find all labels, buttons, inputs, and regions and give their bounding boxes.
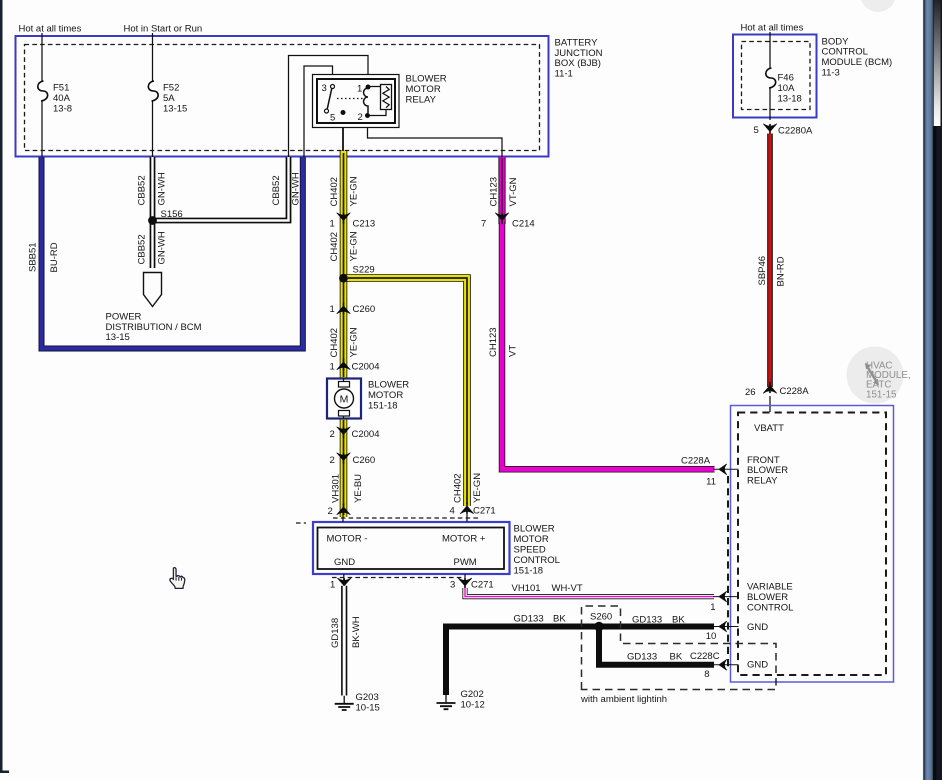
svg-text:11: 11 [706, 477, 716, 488]
svg-text:GD138: GD138 [330, 618, 341, 648]
svg-text:13-15: 13-15 [163, 104, 187, 115]
svg-text:VT: VT [508, 345, 519, 357]
svg-text:CH402: CH402 [453, 473, 464, 503]
svg-text:MOTOR +: MOTOR + [442, 534, 486, 545]
svg-text:JUNCTION: JUNCTION [555, 48, 603, 59]
svg-text:YE-GN: YE-GN [472, 473, 483, 503]
svg-text:1: 1 [330, 304, 335, 315]
svg-text:VBATT: VBATT [754, 423, 784, 434]
svg-text:F52: F52 [163, 83, 179, 94]
svg-text:1: 1 [710, 602, 715, 613]
svg-text:BK: BK [670, 651, 683, 662]
svg-text:Hot at all times: Hot at all times [741, 23, 804, 34]
svg-text:CH123: CH123 [488, 327, 499, 357]
svg-text:BLOWER: BLOWER [368, 380, 409, 391]
svg-text:1: 1 [330, 579, 335, 590]
svg-text:BK: BK [553, 614, 566, 625]
svg-text:S260: S260 [590, 612, 612, 623]
svg-text:151-18: 151-18 [514, 566, 544, 577]
svg-text:BU-RD: BU-RD [49, 242, 60, 272]
svg-text:VH101: VH101 [512, 583, 541, 594]
svg-text:C260: C260 [353, 304, 376, 315]
svg-text:BOX (BJB): BOX (BJB) [555, 58, 601, 69]
svg-text:CH123: CH123 [489, 177, 500, 207]
svg-text:2: 2 [330, 429, 335, 440]
svg-text:CONTROL: CONTROL [747, 602, 793, 613]
svg-text:4: 4 [450, 506, 455, 517]
svg-text:3: 3 [322, 83, 327, 94]
svg-text:13-15: 13-15 [106, 332, 130, 343]
svg-text:MOTOR -: MOTOR - [327, 534, 368, 545]
svg-text:G203: G203 [356, 692, 379, 703]
svg-text:S229: S229 [353, 264, 375, 275]
svg-text:CH402: CH402 [329, 232, 340, 262]
svg-text:PWM: PWM [454, 557, 477, 568]
svg-text:F46: F46 [778, 73, 794, 84]
svg-text:1: 1 [357, 84, 362, 95]
svg-text:11-1: 11-1 [555, 69, 573, 80]
svg-text:C2004: C2004 [352, 362, 380, 373]
svg-text:CBB52: CBB52 [137, 175, 148, 205]
svg-text:C271: C271 [471, 579, 494, 590]
svg-text:10-12: 10-12 [461, 700, 485, 711]
svg-text:8: 8 [704, 669, 709, 680]
svg-text:GD133: GD133 [514, 614, 544, 625]
svg-text:GND: GND [747, 622, 768, 633]
svg-text:5: 5 [330, 113, 335, 124]
svg-text:S156: S156 [161, 209, 183, 220]
svg-text:SBB51: SBB51 [28, 242, 39, 272]
svg-text:CH402: CH402 [329, 328, 340, 358]
svg-text:VT-GN: VT-GN [508, 177, 519, 206]
svg-text:SPEED: SPEED [514, 545, 546, 556]
svg-text:SBP46: SBP46 [757, 256, 768, 286]
svg-text:CBB52: CBB52 [137, 234, 148, 264]
svg-text:C260: C260 [353, 455, 376, 466]
svg-text:GN-WH: GN-WH [157, 231, 168, 264]
svg-text:F51: F51 [53, 83, 69, 94]
svg-text:1: 1 [330, 362, 335, 373]
svg-text:YE-GN: YE-GN [349, 231, 360, 261]
svg-text:151-15: 151-15 [866, 389, 897, 400]
svg-text:BN-RD: BN-RD [776, 256, 787, 286]
svg-text:WH-VT: WH-VT [552, 583, 583, 594]
svg-text:C228A: C228A [780, 386, 810, 397]
svg-text:BK-WH: BK-WH [351, 616, 362, 648]
svg-text:10-15: 10-15 [356, 702, 380, 713]
svg-text:MOTOR: MOTOR [368, 390, 403, 401]
svg-text:C228C: C228C [690, 651, 720, 662]
svg-text:40A: 40A [53, 93, 71, 104]
svg-text:10: 10 [706, 631, 717, 642]
svg-text:Hot at all times: Hot at all times [19, 24, 82, 35]
svg-text:M: M [340, 393, 349, 405]
svg-text:BODY: BODY [822, 36, 850, 47]
svg-text:3: 3 [450, 579, 455, 590]
svg-text:C214: C214 [512, 219, 535, 230]
svg-text:7: 7 [481, 219, 486, 230]
svg-text:11-3: 11-3 [822, 68, 840, 79]
svg-text:RELAY: RELAY [406, 94, 437, 105]
svg-text:26: 26 [745, 387, 756, 398]
svg-text:13-18: 13-18 [778, 94, 802, 105]
svg-text:C2280A: C2280A [778, 126, 813, 137]
svg-text:C271: C271 [473, 506, 496, 517]
svg-text:151-18: 151-18 [368, 400, 398, 411]
svg-text:YE-GN: YE-GN [349, 327, 360, 357]
svg-text:GND: GND [747, 660, 768, 671]
svg-text:GND: GND [334, 557, 355, 568]
svg-text:YE-BU: YE-BU [353, 474, 364, 503]
svg-text:GD133: GD133 [627, 651, 657, 662]
svg-text:CONTROL: CONTROL [514, 555, 560, 566]
svg-text:BLOWER: BLOWER [406, 74, 447, 85]
svg-text:BK: BK [672, 615, 685, 626]
svg-text:C213: C213 [353, 219, 376, 230]
svg-text:GD133: GD133 [632, 615, 662, 626]
svg-text:RELAY: RELAY [747, 476, 778, 487]
svg-text:10A: 10A [778, 83, 796, 94]
svg-text:5A: 5A [163, 93, 175, 104]
svg-text:GN-WH: GN-WH [291, 172, 302, 205]
svg-text:2: 2 [330, 455, 335, 466]
svg-text:MOTOR: MOTOR [514, 534, 549, 545]
svg-text:13-8: 13-8 [53, 104, 72, 115]
svg-text:1: 1 [330, 219, 335, 230]
svg-text:Hot in Start or Run: Hot in Start or Run [124, 24, 203, 35]
svg-text:with ambient lightinh: with ambient lightinh [580, 694, 667, 705]
svg-text:C228A: C228A [681, 456, 711, 467]
svg-text:5: 5 [754, 125, 759, 136]
svg-text:BATTERY: BATTERY [555, 37, 599, 48]
svg-text:2: 2 [358, 112, 363, 123]
svg-text:CBB52: CBB52 [271, 175, 282, 205]
svg-text:CH402: CH402 [329, 177, 340, 207]
svg-text:G202: G202 [461, 689, 484, 700]
svg-text:VH301: VH301 [331, 474, 342, 503]
svg-text:MODULE (BCM): MODULE (BCM) [822, 57, 893, 68]
svg-text:2: 2 [328, 506, 333, 517]
svg-text:MOTOR: MOTOR [406, 84, 441, 95]
svg-text:C2004: C2004 [352, 429, 380, 440]
svg-text:BLOWER: BLOWER [514, 524, 555, 535]
svg-text:YE-GN: YE-GN [349, 176, 360, 206]
svg-text:CONTROL: CONTROL [822, 47, 868, 58]
svg-text:GN-WH: GN-WH [157, 172, 168, 205]
